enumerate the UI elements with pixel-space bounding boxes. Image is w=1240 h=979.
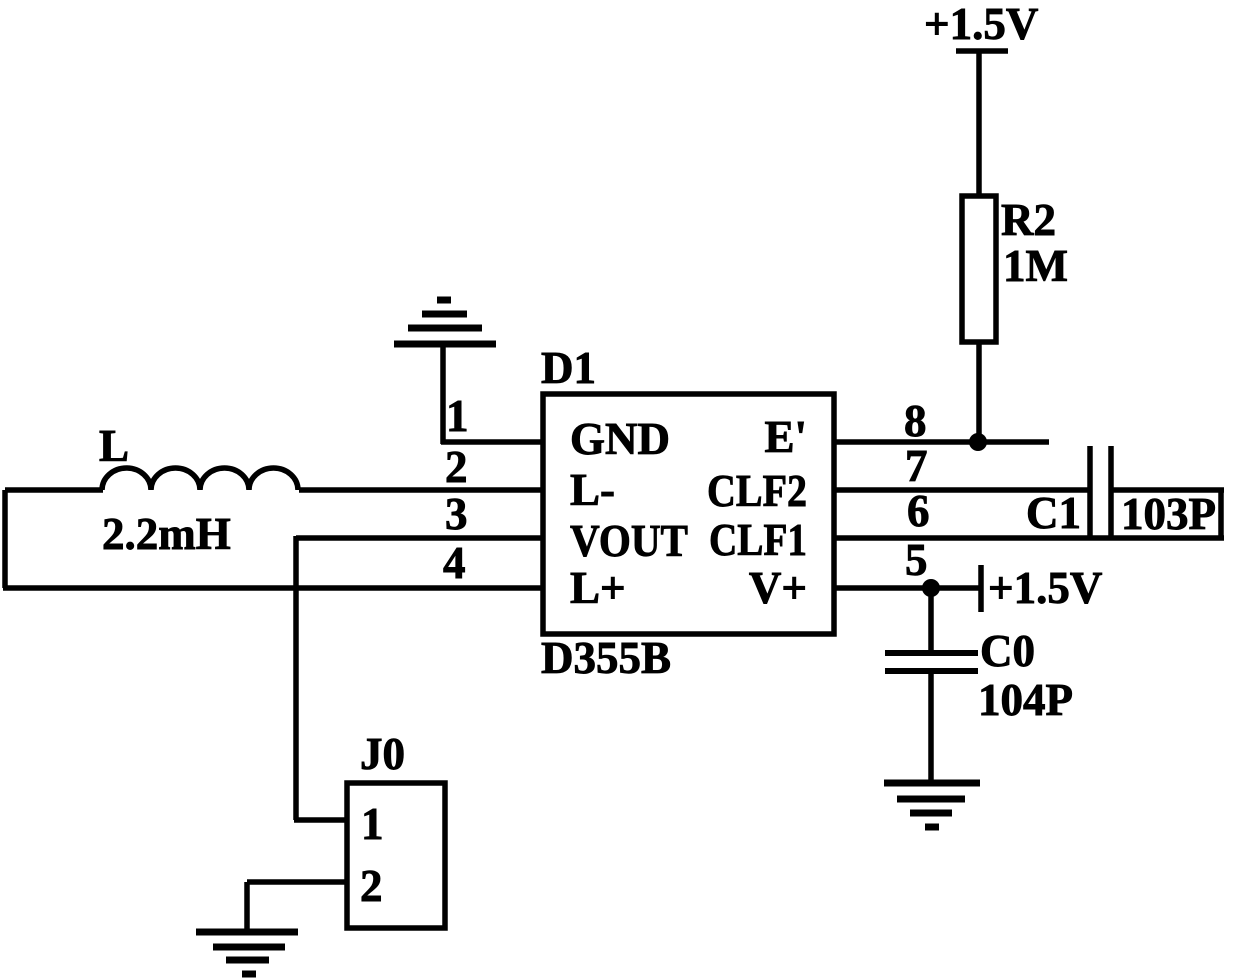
svg-text:2.2mH: 2.2mH (102, 509, 231, 559)
wire pin 4 (L+) (3, 585, 543, 591)
wire pin 3 (VOUT) (296, 535, 543, 541)
svg-text:2: 2 (360, 861, 383, 911)
svg-text:4: 4 (443, 538, 466, 588)
junction dot on pin 5 wire (922, 579, 940, 597)
svg-text:GND: GND (570, 414, 670, 464)
wire: junction down to capacitor C0 (928, 588, 934, 653)
svg-text:D1: D1 (541, 343, 596, 393)
resistor R2 (962, 196, 996, 342)
wire pin 2 (L-) from inductor to IC (299, 487, 543, 493)
wire: junction to +1.5V bar (931, 585, 979, 591)
svg-text:1: 1 (446, 391, 469, 441)
wire pin 5 (V+) (834, 585, 931, 591)
wire: left segment to inductor (5, 487, 103, 493)
wire: left vertical edge (2, 490, 8, 588)
ground symbol (below C0) (884, 783, 980, 827)
svg-text:L: L (99, 421, 129, 471)
ground symbol (below J0) (196, 932, 298, 974)
inductor L (102, 468, 298, 490)
svg-text:CLF1: CLF1 (709, 515, 807, 565)
wire: down to ground from J0 pin 2 (244, 882, 250, 931)
wire: ground stem down to pin 1 (440, 344, 446, 444)
svg-text:1M: 1M (1003, 241, 1068, 291)
svg-text:VOUT: VOUT (570, 516, 688, 566)
wire pin 8 (E') (834, 439, 1049, 445)
svg-text:2: 2 (445, 442, 468, 492)
svg-text:R2: R2 (1001, 195, 1056, 245)
wire: VOUT vertical down to J0 (293, 536, 299, 820)
wire: R2 bottom to node on pin 8 (976, 342, 982, 442)
connector J0 box (347, 783, 445, 928)
svg-text:J0: J0 (360, 729, 405, 779)
capacitor C0 plates (885, 653, 978, 671)
wire: +1.5V bar down to resistor R2 (976, 51, 982, 198)
wire: right vertical edge joining pin7 loop to pin6 (1218, 490, 1224, 538)
svg-text:6: 6 (907, 486, 930, 536)
ground symbol (flipped, at pin 1 GND) (394, 300, 496, 344)
svg-text:8: 8 (904, 396, 927, 446)
svg-text:L-: L- (570, 465, 615, 515)
svg-text:7: 7 (905, 441, 928, 491)
wire: into J0 pin 1 (294, 817, 347, 823)
svg-text:+1.5V: +1.5V (924, 0, 1038, 49)
wire pin 6 (CLF1) (834, 535, 1224, 541)
wire: C0 bottom plate to ground (928, 671, 934, 783)
junction dot on pin 8 wire (969, 433, 987, 451)
svg-text:5: 5 (905, 535, 928, 585)
wire pin 1 (GND) (441, 439, 543, 445)
svg-text:CLF2: CLF2 (707, 466, 807, 516)
svg-text:D355B: D355B (541, 633, 671, 683)
capacitor C1 plates (1090, 446, 1111, 536)
svg-text:103P: 103P (1121, 489, 1216, 539)
svg-text:E': E' (764, 412, 807, 462)
wire: J0 pin 2 out (247, 879, 347, 885)
power rail +1.5V (top, feeding R2) (924, 0, 1038, 51)
wire: C1 right plate to right edge (1111, 487, 1224, 493)
svg-text:C1: C1 (1026, 488, 1081, 538)
wire pin 7 (CLF2) to capacitor C1 (834, 487, 1090, 493)
svg-text:V+: V+ (749, 563, 807, 613)
IC D1 box (D355B) (543, 394, 834, 634)
svg-text:1: 1 (361, 799, 384, 849)
power +1.5V (at V+) (981, 563, 1102, 613)
svg-text:L+: L+ (570, 563, 626, 613)
svg-text:C0: C0 (980, 626, 1035, 676)
svg-text:3: 3 (445, 489, 468, 539)
svg-text:+1.5V: +1.5V (988, 563, 1102, 613)
svg-text:104P: 104P (978, 675, 1073, 725)
